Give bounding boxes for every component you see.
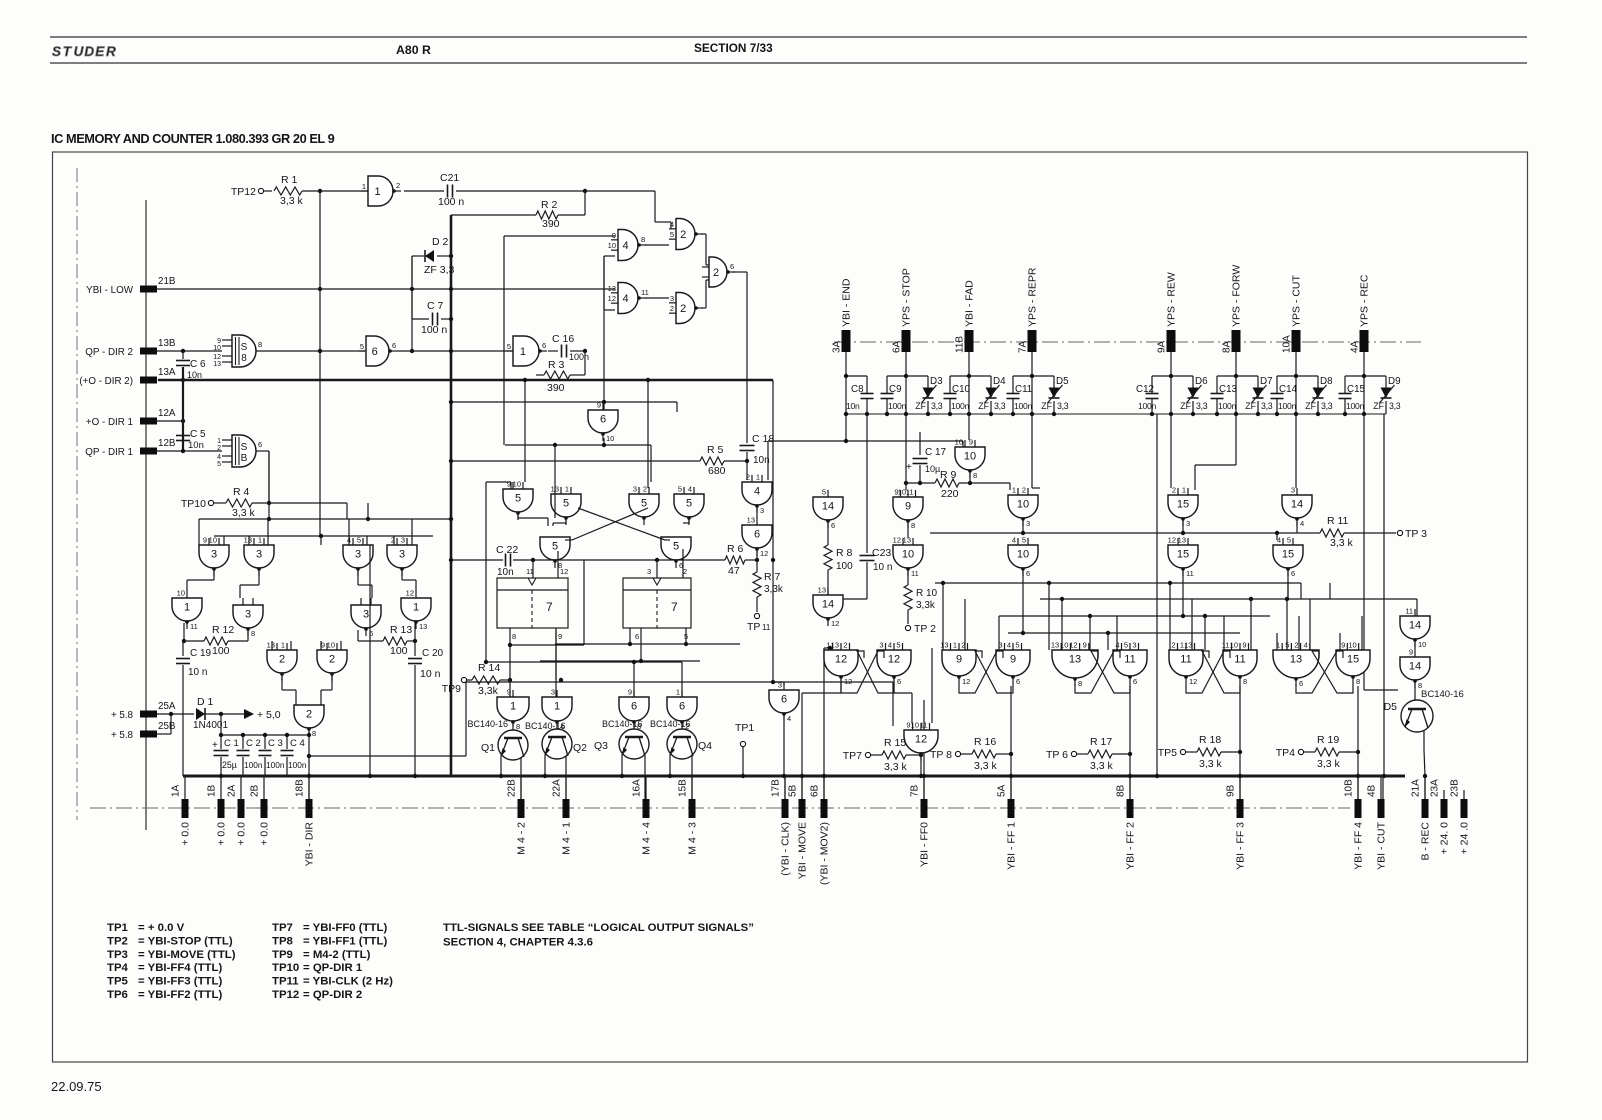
- svg-text:6: 6: [1291, 569, 1295, 578]
- latch gate 11 at 1186: [1169, 641, 1203, 687]
- latch cross-coupling wires: [841, 651, 1353, 693]
- svg-text:15: 15: [1347, 654, 1359, 666]
- gate 2 e: [317, 641, 347, 682]
- svg-text:1A: 1A: [171, 784, 182, 797]
- svg-text:6: 6: [679, 701, 685, 713]
- wire r5 c18 area: [449, 459, 700, 463]
- svg-text:1: 1: [554, 701, 560, 713]
- svg-text:100n: 100n: [1138, 401, 1156, 411]
- svg-text:3: 3: [551, 688, 555, 697]
- svg-text:R 17: R 17: [1090, 736, 1112, 748]
- svg-text:6: 6: [372, 346, 378, 358]
- svg-text:SECTION 7/33: SECTION 7/33: [694, 41, 773, 55]
- svg-text:11B: 11B: [955, 336, 966, 353]
- svg-text:S: S: [241, 342, 248, 353]
- test point TP7 / resistor R 15: [843, 737, 921, 773]
- svg-text:Q4: Q4: [698, 740, 712, 752]
- svg-text:3,3 k: 3,3 k: [884, 761, 908, 773]
- svg-text:C8: C8: [851, 384, 864, 395]
- wire 3d to 1d: [402, 571, 416, 591]
- svg-text:D9: D9: [1388, 376, 1401, 387]
- svg-text:18B: 18B: [295, 779, 306, 797]
- svg-text:8: 8: [1078, 679, 1082, 688]
- wire gate10t out: [969, 473, 971, 483]
- svg-text:13: 13: [267, 641, 275, 650]
- svg-text:11: 11: [920, 721, 928, 730]
- svg-text:9: 9: [507, 480, 511, 489]
- capacitor C6: [176, 351, 206, 380]
- svg-text:17B: 17B: [771, 779, 782, 797]
- svg-text:11: 11: [906, 488, 914, 497]
- svg-text:(YBI - MOV2): (YBI - MOV2): [819, 822, 831, 885]
- svg-text:TP2: TP2: [107, 935, 128, 947]
- wire QP-DIR1: [157, 449, 222, 453]
- gate 4 (upper): [608, 230, 646, 261]
- gate 3 a: [199, 536, 229, 577]
- flipflop box 7 left: [497, 567, 568, 641]
- connector pin 2B: [250, 777, 271, 846]
- wire vertical x604: [603, 256, 605, 445]
- svg-text:2: 2: [746, 473, 750, 482]
- svg-text:4: 4: [787, 714, 791, 723]
- svg-text:U: U: [74, 44, 85, 59]
- svg-text:TP5: TP5: [107, 976, 129, 988]
- latch gate 11 at 1130: [1113, 641, 1147, 687]
- gate 14 b: [813, 586, 843, 629]
- gate 1 (inverter A): [361, 176, 401, 206]
- wire g9 out: [907, 523, 909, 538]
- svg-text:5: 5: [678, 485, 682, 494]
- svg-text:4B: 4B: [1367, 784, 1378, 797]
- svg-text:11: 11: [190, 622, 198, 631]
- resistor R2: [451, 191, 585, 230]
- svg-text:4: 4: [347, 536, 351, 545]
- svg-text:3: 3: [1291, 486, 1295, 495]
- svg-text:5: 5: [1285, 641, 1289, 650]
- connector pin 11B: [955, 280, 976, 353]
- svg-text:100n: 100n: [1346, 401, 1364, 411]
- svg-text:3: 3: [401, 536, 405, 545]
- connector pin 23A: [1430, 779, 1451, 855]
- wire R5 to C18 col: [724, 460, 747, 462]
- resistor R11: [1320, 515, 1396, 549]
- latch gate 12 at 841: [824, 641, 858, 687]
- svg-text:BC140-16: BC140-16: [525, 721, 566, 731]
- svg-text:22B: 22B: [507, 779, 518, 797]
- svg-text:100n: 100n: [266, 760, 285, 770]
- svg-text:D 2: D 2: [432, 236, 449, 248]
- gate 12 big: [904, 648, 938, 761]
- gate 6 r: [742, 516, 772, 559]
- connector pin 21B: [86, 276, 176, 296]
- svg-text:9: 9: [1341, 641, 1345, 650]
- gate 10 d: [893, 536, 923, 579]
- svg-text:13: 13: [1290, 654, 1302, 666]
- svg-text:D 1: D 1: [197, 696, 214, 708]
- latch outputs down: [922, 686, 1360, 799]
- gate SB (schmitt b): [217, 435, 262, 468]
- svg-text:D7: D7: [1260, 376, 1273, 387]
- svg-text:10n: 10n: [187, 370, 202, 380]
- svg-text:8A: 8A: [1222, 340, 1233, 353]
- svg-text:C11: C11: [1015, 384, 1032, 395]
- svg-text:BC140-16: BC140-16: [650, 719, 691, 729]
- svg-text:D6: D6: [1195, 376, 1208, 387]
- svg-text:= YBI-FF0 (TTL): = YBI-FF0 (TTL): [303, 922, 387, 934]
- svg-text:5: 5: [1015, 641, 1019, 650]
- svg-text:25A: 25A: [158, 701, 176, 712]
- svg-text:5: 5: [686, 498, 692, 510]
- gate 9 r: [893, 488, 923, 531]
- wire latch out y700: [802, 678, 912, 700]
- svg-text:11: 11: [1405, 607, 1413, 616]
- svg-text:C 22: C 22: [496, 544, 518, 556]
- svg-text:3: 3: [256, 549, 262, 561]
- svg-text:2: 2: [643, 485, 647, 494]
- wire clk out: [771, 680, 786, 799]
- test point TP1: [735, 722, 754, 778]
- svg-text:12B: 12B: [158, 438, 176, 449]
- svg-text:4: 4: [1012, 536, 1016, 545]
- svg-text:14: 14: [822, 599, 834, 611]
- svg-text:3: 3: [647, 567, 651, 576]
- svg-text:100 n: 100 n: [421, 324, 447, 336]
- svg-text:C 20: C 20: [422, 648, 444, 659]
- svg-text:6: 6: [897, 677, 901, 686]
- svg-text:5: 5: [1124, 641, 1128, 650]
- svg-text:8: 8: [1243, 677, 1247, 686]
- svg-text:C13: C13: [1219, 384, 1238, 395]
- svg-text:5: 5: [563, 498, 569, 510]
- svg-text:3,3 k: 3,3 k: [1330, 537, 1354, 549]
- svg-text:10n: 10n: [497, 567, 514, 578]
- wire gate2d inputs: [272, 641, 341, 650]
- svg-text:R 4: R 4: [233, 486, 250, 498]
- flipflop box 7 right: [623, 567, 691, 641]
- wire y445 distribution: [505, 443, 651, 518]
- svg-text:+ 0.0: + 0.0: [216, 822, 228, 846]
- svg-text:9: 9: [956, 654, 962, 666]
- gate 4 r: [742, 473, 772, 516]
- wire g2b out to g2mid: [701, 280, 709, 308]
- capacitor C14 / diode D8 group: [1271, 352, 1334, 414]
- svg-text:YPS - CUT: YPS - CUT: [1291, 274, 1303, 327]
- wire g4b pin12: [604, 289, 615, 310]
- svg-text:S: S: [52, 44, 61, 59]
- svg-text:2: 2: [1171, 641, 1175, 650]
- wire g4b out to g2b: [645, 297, 669, 299]
- svg-text:M 4 - 3: M 4 - 3: [687, 822, 699, 855]
- wire col 8A down: [1195, 414, 1236, 490]
- svg-text:C 18: C 18: [752, 433, 774, 445]
- svg-text:C 17: C 17: [925, 447, 947, 458]
- svg-text:12: 12: [406, 589, 414, 598]
- svg-text:6: 6: [1133, 677, 1137, 686]
- svg-text:YPS - FORW: YPS - FORW: [1231, 265, 1243, 327]
- gate 14 d: [1400, 648, 1430, 691]
- svg-text:TP4: TP4: [107, 962, 129, 974]
- gate 5 a: [551, 485, 581, 526]
- gate14r out: [1277, 521, 1297, 540]
- svg-text:S: S: [241, 442, 248, 453]
- svg-text:4: 4: [623, 240, 629, 252]
- svg-text:6: 6: [754, 529, 760, 541]
- svg-text:3: 3: [399, 549, 405, 561]
- svg-text:12: 12: [888, 654, 900, 666]
- svg-text:+ 5,0: + 5,0: [257, 709, 281, 721]
- svg-text:8: 8: [241, 353, 247, 364]
- svg-text:2A: 2A: [227, 784, 238, 797]
- svg-text:YBI - MOVE: YBI - MOVE: [797, 822, 809, 879]
- svg-text:2: 2: [396, 181, 400, 190]
- svg-text:1N4001: 1N4001: [193, 720, 228, 731]
- svg-text:5: 5: [896, 641, 900, 650]
- svg-text:12: 12: [1168, 536, 1176, 545]
- wire 12A: [157, 367, 185, 451]
- gate 4 (lower): [608, 283, 649, 314]
- svg-text:YBI - CUT: YBI - CUT: [1376, 821, 1388, 869]
- svg-text:1: 1: [217, 438, 221, 445]
- gate 10 c: [1008, 536, 1038, 579]
- svg-text:6A: 6A: [892, 340, 903, 353]
- svg-text:= QP-DIR 1: = QP-DIR 1: [303, 962, 363, 974]
- svg-text:3,3: 3,3: [931, 401, 943, 411]
- wire vertical x648: [646, 378, 650, 488]
- transistor Q3: [594, 719, 649, 799]
- svg-text:10: 10: [209, 536, 217, 545]
- svg-text:3,3k: 3,3k: [916, 600, 936, 611]
- svg-text:2: 2: [670, 304, 674, 313]
- svg-text:3,3: 3,3: [1196, 401, 1208, 411]
- svg-text:1: 1: [1182, 486, 1186, 495]
- wire mesh y630: [1008, 631, 1240, 635]
- +O-DIR2 bus 13A (thick): [158, 379, 773, 382]
- svg-text:E: E: [95, 44, 105, 59]
- svg-text:21A: 21A: [1411, 779, 1422, 797]
- svg-text:11: 11: [526, 567, 534, 576]
- cap C1 rail: [219, 733, 309, 749]
- svg-text:5B: 5B: [788, 784, 799, 797]
- svg-text:7A: 7A: [1018, 340, 1029, 353]
- test point TP2: [905, 623, 936, 635]
- resistor R14: [442, 662, 512, 697]
- svg-text:B: B: [241, 453, 248, 464]
- capacitor C16: [548, 333, 589, 362]
- wire 3b down: [240, 571, 259, 598]
- resistor R12: [182, 623, 248, 657]
- svg-text:C 7: C 7: [427, 300, 444, 312]
- svg-text:6: 6: [1299, 679, 1303, 688]
- transistor Q1: [467, 719, 528, 799]
- wire 5f pin9 feed: [486, 482, 511, 662]
- svg-text:= YBI-FF2 (TTL): = YBI-FF2 (TTL): [138, 989, 222, 1001]
- svg-text:12: 12: [835, 654, 847, 666]
- svg-text:13: 13: [608, 284, 616, 293]
- svg-text:6: 6: [1016, 677, 1020, 686]
- svg-text:15B: 15B: [678, 779, 689, 797]
- wire 14c top: [1329, 583, 1331, 599]
- svg-text:R 7: R 7: [764, 571, 781, 583]
- svg-text:12: 12: [962, 677, 970, 686]
- svg-text:R 9: R 9: [940, 469, 957, 481]
- svg-text:13: 13: [1178, 536, 1186, 545]
- svg-text:3: 3: [363, 609, 369, 621]
- svg-text:16A: 16A: [632, 779, 643, 797]
- connector pin 6B: [810, 777, 831, 885]
- connector pin 10A: [1282, 274, 1303, 353]
- svg-text:TP6: TP6: [107, 989, 128, 1001]
- svg-text:13: 13: [903, 536, 911, 545]
- connector pin 8B: [1116, 777, 1137, 870]
- svg-text:D5: D5: [1056, 376, 1069, 387]
- svg-text:8: 8: [251, 629, 255, 638]
- svg-text:5: 5: [673, 541, 679, 553]
- svg-text:TP10: TP10: [272, 962, 299, 974]
- connector dash-dot line top: [834, 341, 1421, 343]
- svg-text:Q1: Q1: [481, 742, 495, 754]
- gate 5 e: [661, 537, 691, 570]
- svg-text:5: 5: [1287, 536, 1291, 545]
- gate 6 (buffer a): [359, 336, 397, 366]
- svg-text:11: 11: [1222, 641, 1230, 650]
- svg-text:4: 4: [754, 486, 760, 498]
- svg-text:YBI - LOW: YBI - LOW: [86, 285, 134, 296]
- connector pin 12A: [86, 408, 176, 428]
- svg-text:9: 9: [558, 632, 562, 641]
- svg-text:9: 9: [1010, 654, 1016, 666]
- svg-text:R 2: R 2: [541, 199, 558, 211]
- wire horizontal y402: [449, 400, 677, 412]
- ground bus +0.0 (thick): [183, 775, 1405, 778]
- svg-text:13: 13: [244, 536, 252, 545]
- capacitor C9 / diode D3 group: [881, 352, 944, 414]
- resistor R8: [824, 523, 853, 595]
- svg-text:3: 3: [1026, 519, 1030, 528]
- svg-text:3,3 k: 3,3 k: [974, 760, 998, 772]
- svg-text:C23: C23: [872, 547, 891, 559]
- svg-text:5: 5: [1022, 536, 1026, 545]
- svg-text:13: 13: [940, 641, 948, 650]
- svg-text:6: 6: [258, 440, 262, 449]
- svg-text:+ 5.8: + 5.8: [111, 710, 134, 721]
- svg-text:11: 11: [1124, 654, 1135, 666]
- svg-text:10 n: 10 n: [420, 668, 441, 680]
- resistor R10: [904, 571, 938, 624]
- connector pin 6A: [892, 268, 913, 353]
- gate 14 r: [1282, 486, 1312, 529]
- svg-text:1: 1: [1012, 486, 1016, 495]
- svg-text:9: 9: [612, 231, 616, 240]
- svg-text:BC140-16: BC140-16: [467, 719, 508, 729]
- svg-text:3,3: 3,3: [1321, 401, 1333, 411]
- resistor R5: [700, 444, 726, 477]
- svg-text:2: 2: [1172, 486, 1176, 495]
- svg-text:TP3: TP3: [107, 949, 128, 961]
- wire R4 right: [252, 503, 347, 519]
- svg-text:2: 2: [279, 654, 285, 666]
- svg-text:47: 47: [728, 565, 740, 577]
- svg-text:ZF: ZF: [915, 401, 926, 411]
- connector pin 5A: [997, 777, 1018, 870]
- svg-text:3,3 k: 3,3 k: [1090, 760, 1114, 772]
- connector pin 12B: [85, 438, 176, 458]
- svg-text:C10: C10: [952, 384, 971, 395]
- resistor R9: [904, 469, 1010, 500]
- gate 1 d: [401, 589, 431, 632]
- svg-text:= YBI-CLK (2 Hz): = YBI-CLK (2 Hz): [303, 976, 393, 988]
- connector pin 23B: [1450, 779, 1471, 855]
- wire TP3 line: [930, 521, 1320, 535]
- svg-text:7B: 7B: [910, 784, 921, 797]
- svg-text:8: 8: [1356, 677, 1360, 686]
- connector pin 18B: [295, 777, 316, 866]
- svg-text:1: 1: [184, 602, 190, 614]
- transistor Q2: [525, 721, 587, 799]
- svg-text:6B: 6B: [810, 784, 821, 797]
- connector pin 1A: [171, 777, 192, 846]
- svg-text:100 n: 100 n: [438, 196, 464, 208]
- wire YBI-LOW: [157, 256, 453, 291]
- svg-text:8: 8: [516, 722, 520, 731]
- svg-text:TP4: TP4: [1276, 747, 1295, 759]
- svg-text:YBI - DIR: YBI - DIR: [304, 822, 316, 867]
- svg-text:ZF: ZF: [1305, 401, 1316, 411]
- svg-text:12: 12: [1189, 677, 1197, 686]
- gate 6 mid: [588, 401, 618, 444]
- wire col 6A down: [905, 414, 907, 490]
- wire 5f pin10 feed: [523, 378, 527, 482]
- svg-text:3: 3: [245, 609, 251, 621]
- resistor R4: [226, 486, 256, 519]
- svg-text:R 19: R 19: [1317, 734, 1339, 746]
- svg-text:C 6: C 6: [190, 359, 206, 370]
- svg-text:TP5: TP5: [1158, 747, 1177, 759]
- gate 5 c: [674, 485, 704, 526]
- svg-text:C14: C14: [1279, 384, 1298, 395]
- svg-text:1: 1: [374, 186, 380, 198]
- svg-text:8: 8: [911, 521, 915, 530]
- capacitor C11 / diode D5 group: [1007, 352, 1070, 414]
- gate 3 c: [343, 536, 373, 577]
- svg-text:C 5: C 5: [190, 429, 206, 440]
- svg-text:R 1: R 1: [281, 174, 298, 186]
- svg-text:390: 390: [542, 218, 560, 230]
- svg-text:+ 5.8: + 5.8: [111, 730, 134, 741]
- svg-text:9B: 9B: [1226, 784, 1237, 797]
- svg-text:TP9: TP9: [272, 949, 293, 961]
- svg-text:22.09.75: 22.09.75: [51, 1079, 102, 1094]
- wire 3a to 1c: [187, 571, 214, 591]
- svg-text:1B: 1B: [207, 784, 218, 797]
- svg-text:2: 2: [306, 709, 312, 721]
- wire col 10A down: [1295, 414, 1297, 488]
- svg-text:M 4 - 1: M 4 - 1: [561, 822, 573, 855]
- svg-text:C 1: C 1: [224, 738, 239, 749]
- svg-text:QP - DIR 1: QP - DIR 1: [85, 447, 133, 458]
- gate 15 c: [1273, 536, 1303, 579]
- wire x412 down: [411, 289, 413, 351]
- gate 1 (buffer b): [506, 336, 547, 366]
- svg-text:10 n: 10 n: [188, 667, 207, 678]
- gate 2 d: [267, 641, 297, 682]
- svg-text:R 18: R 18: [1199, 734, 1221, 746]
- svg-text:6: 6: [1026, 569, 1030, 578]
- gate 5 b: [629, 485, 659, 526]
- svg-text:1: 1: [258, 536, 262, 545]
- svg-text:+ 24 .0: + 24 .0: [1459, 822, 1471, 855]
- connector pin 8A: [1222, 265, 1243, 353]
- svg-text:4: 4: [217, 454, 221, 461]
